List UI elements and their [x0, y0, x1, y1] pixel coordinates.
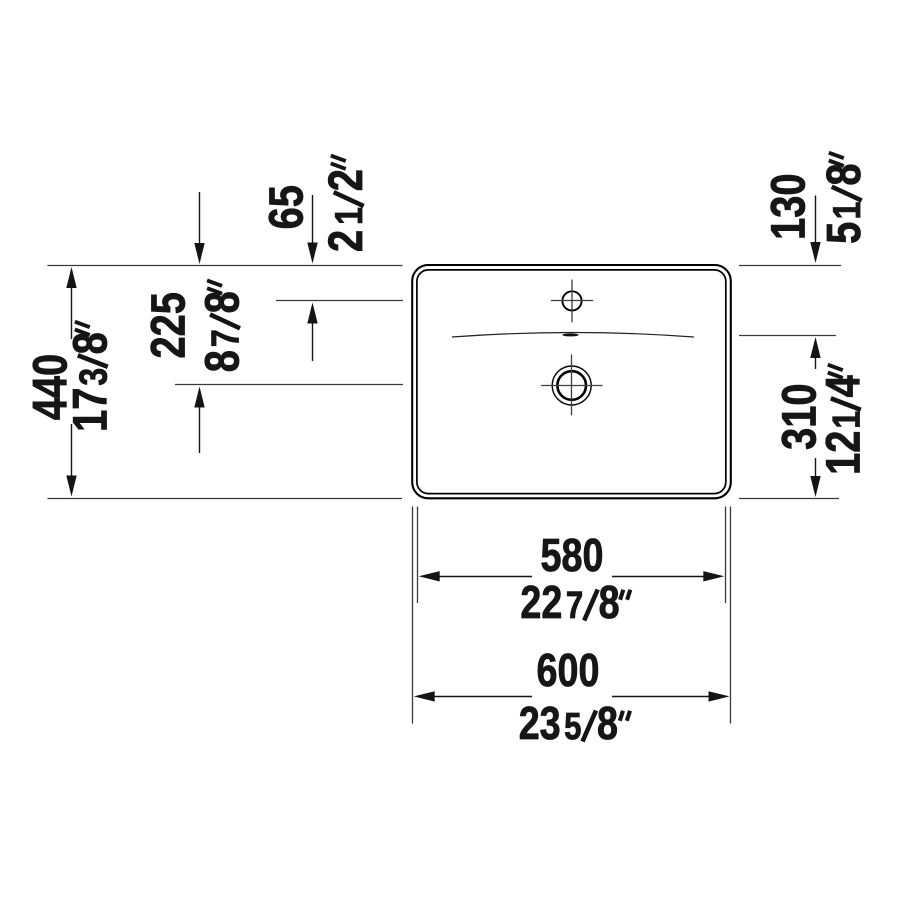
dimension 225 bottom outside arrow pointing up: [194, 387, 204, 454]
faucet hole crosshair vertical: [571, 280, 573, 323]
extension line below sink outer-right: [730, 507, 732, 724]
svg-text:130: 130: [762, 174, 816, 240]
drain outer circle: [552, 366, 591, 405]
dimension 440 lower segment with down arrow: [66, 424, 76, 497]
drain crosshair vertical: [571, 355, 573, 416]
dimension 310 upper arrow pointing up: [810, 337, 820, 369]
dimension 600 right segment with right arrow: [612, 691, 730, 701]
extension line bottom right (front edge level): [739, 498, 839, 500]
overflow slot dash: [562, 333, 578, 336]
washbasin inner rim outline: [417, 270, 726, 494]
drain crosshair horizontal: [541, 385, 602, 387]
svg-text:1738: 1738: [64, 332, 118, 432]
faucet hole crosshair horizontal: [551, 300, 593, 302]
dimension 65 top outside arrow pointing down: [307, 195, 317, 264]
dimension 600 left segment with left arrow: [414, 691, 532, 701]
dimension 580 left segment with left arrow: [419, 571, 532, 581]
svg-text:878: 878: [196, 291, 250, 372]
faucet hole circle: [562, 291, 581, 310]
extension line top right (rear edge level): [739, 265, 841, 267]
extension line drain level left: [175, 384, 403, 386]
extension line overflow level right: [739, 335, 836, 337]
svg-text:518: 518: [818, 164, 872, 244]
basin back ledge arc: [452, 333, 694, 338]
svg-text:580: 580: [541, 529, 604, 580]
extension line faucet level left: [276, 300, 403, 302]
washbasin outer outline: [412, 265, 731, 498]
dimension 225 top outside arrow pointing down: [194, 192, 204, 264]
svg-text:65: 65: [260, 185, 314, 229]
dimension 440 upper segment with up arrow: [66, 267, 76, 339]
extension line top left (rear edge level): [48, 265, 403, 267]
drain inner circle: [557, 371, 586, 400]
svg-text:212: 212: [320, 169, 374, 252]
extension line below sink outer-left: [412, 507, 414, 724]
dimension 310 lower segment with down arrow: [810, 458, 820, 497]
svg-text:600: 600: [537, 645, 600, 696]
extension line below sink inner-left: [417, 507, 419, 604]
svg-text:1214: 1214: [817, 375, 871, 475]
dimension 580 right segment with right arrow: [612, 571, 724, 581]
dimension 130 outside arrow pointing down: [810, 196, 820, 264]
extension line bottom left (front edge level): [48, 498, 403, 500]
extension line below sink inner-right: [725, 507, 727, 604]
dimension 65 bottom outside arrow pointing up: [307, 303, 317, 362]
svg-text:225: 225: [142, 292, 196, 358]
